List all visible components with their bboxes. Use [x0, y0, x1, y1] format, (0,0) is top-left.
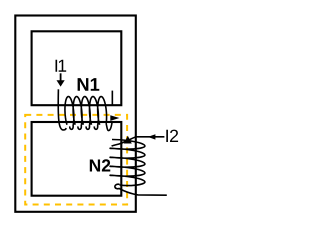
winding N2 entry wire (I2 lead): [112, 137, 165, 146]
winding N1 exit wire (visible below bar): [106, 122, 112, 131]
core bottom window: [32, 122, 122, 196]
current I2 arrow (on lead): [148, 134, 156, 139]
winding N2 exit wire: [115, 184, 167, 195]
label N2: [90, 159, 110, 171]
flux direction arrow (right, on top dashed segment): [110, 115, 119, 121]
flux path (yellow dashed loop): [25, 115, 127, 205]
winding N1 exit stub (above bar): [111, 91, 113, 105]
label N1: [78, 78, 100, 91]
winding N1 coil (5 turns): [65, 97, 107, 130]
flux direction arrow (up, on right dashed segment): [124, 136, 132, 144]
label I1: [56, 60, 67, 72]
core top window: [32, 31, 122, 105]
core outer outline: [15, 16, 136, 212]
current I1 arrow: [60, 73, 62, 81]
winding N1 entry wire (from I1): [58, 89, 66, 130]
label I2: [166, 130, 178, 142]
winding N2 coil (5 turns): [110, 139, 145, 187]
